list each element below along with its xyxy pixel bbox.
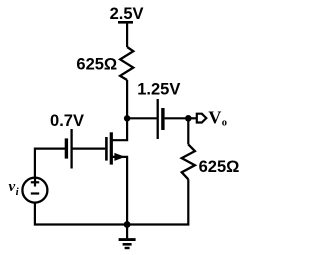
svg-text:625Ω: 625Ω <box>76 56 117 74</box>
svg-text:o: o <box>222 118 227 129</box>
svg-text:625Ω: 625Ω <box>199 158 240 176</box>
svg-text:0.7V: 0.7V <box>50 112 84 130</box>
svg-text:V: V <box>208 108 221 128</box>
svg-text:v: v <box>9 179 16 195</box>
svg-text:1.25V: 1.25V <box>137 81 180 99</box>
svg-text:2.5V: 2.5V <box>110 5 144 23</box>
